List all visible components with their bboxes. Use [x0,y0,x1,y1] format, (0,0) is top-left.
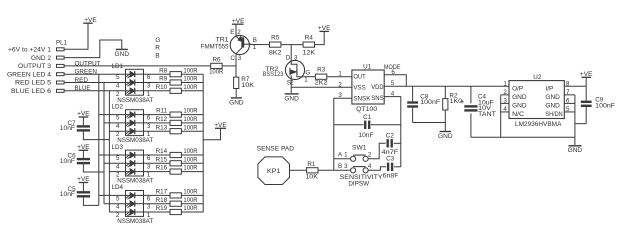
power +VE (U2) [580,71,593,78]
svg-text:4: 4 [116,83,120,90]
svg-text:6n8F: 6n8F [383,172,399,179]
svg-text:10nF: 10nF [358,132,373,139]
wire LD2 pin2 [109,130,125,132]
wire GND rail (U2) [471,136,575,138]
svg-text:SNS: SNS [371,95,383,102]
svg-text:4: 4 [116,204,120,211]
pin 4 (U2) [503,106,507,113]
svg-text:100R: 100R [183,124,198,131]
net OUTPUT wire [64,65,210,67]
wire LD3 pin4 [104,162,126,164]
pin 4 (U1 SNS) [391,91,395,98]
resistor R6 100R [209,57,224,76]
svg-text:100R: 100R [183,165,198,172]
wire SW1-A left [334,158,351,160]
svg-text:100R: 100R [183,67,198,74]
svg-text:R11: R11 [156,108,168,115]
pin 3 (U1 SNSK) [338,92,342,99]
wire SNSK drop [334,98,352,170]
svg-text:BLUE LED 6: BLUE LED 6 [11,88,52,95]
svg-text:4: 4 [368,163,372,170]
LED LD2 NSSM038AT [112,103,154,144]
pin 3 (U2) [503,98,507,105]
pin 1 (U2) [503,81,507,88]
label SENSITIVITY [340,174,384,181]
svg-text:BSS123: BSS123 [263,71,284,78]
net BLUE label [75,85,91,92]
wire R4 to +VE [315,31,325,44]
power +VE (PL1) [83,17,97,24]
svg-text:KP1: KP1 [267,168,281,175]
svg-text:G: G [155,37,160,44]
svg-text:R16: R16 [156,165,168,172]
LED LD4 NSSM038AT [112,184,154,225]
wire VDD rail [384,85,509,87]
sense pad KP1 [258,157,290,185]
net RED label [75,77,89,84]
svg-text:R19: R19 [156,205,168,212]
svg-text:O/P: O/P [512,85,523,92]
svg-text:8K2: 8K2 [269,49,282,56]
pin label D3 (TR2) [286,55,298,62]
ground (TR2) [284,94,299,102]
wire RED bus [103,83,105,204]
capacitor C8 100nF [407,86,440,122]
ground (PL1) [115,49,130,57]
svg-text:R17: R17 [156,189,168,196]
svg-text:3: 3 [147,204,151,211]
svg-text:R: R [155,45,160,52]
svg-text:R1: R1 [307,161,316,168]
resistor R1 10K [305,161,319,181]
svg-text:GND: GND [545,103,560,110]
svg-text:U2: U2 [533,74,542,81]
resistor R9 100R [144,76,204,86]
svg-text:GND: GND [512,103,527,110]
svg-text:VDD: VDD [371,84,384,91]
pin 2 (U2) [503,89,507,96]
svg-text:1: 1 [338,70,342,77]
svg-text:+6V to +24V 1: +6V to +24V 1 [8,47,52,54]
resistor R15 100R [144,156,204,166]
net BLUE wire [64,90,125,92]
svg-text:N/C: N/C [512,111,525,118]
wire SNS drop [384,97,401,167]
label TR1 [216,36,230,43]
pin 5 (U1 VDD) [391,80,395,87]
svg-text:R3: R3 [317,67,326,74]
wire +VE bus stub [203,128,220,140]
svg-text:1: 1 [304,76,308,83]
wire pin2 to GND [64,40,122,58]
label BSS123 [263,71,284,78]
capacitor C6 10nF [60,144,104,172]
resistor R2 1K0 [443,86,463,122]
svg-text:10K: 10K [305,174,319,181]
pin 8 (U2) [566,81,570,88]
pin 2 (U1 VSS) [338,81,342,88]
wire LD4 pin4 [104,203,126,205]
pin 6 (U1 MODE) [384,64,401,76]
op-amp U1 QT100 body [352,63,384,104]
svg-text:R6: R6 [212,57,221,64]
svg-text:GND: GND [229,99,244,106]
label LM2936HVBMA [515,121,562,128]
capacitor C1 10nF [334,114,401,139]
svg-text:10K: 10K [241,82,255,89]
svg-text:R9: R9 [159,76,168,83]
resistor R11 100R [144,108,204,118]
svg-text:100R: 100R [183,189,198,196]
svg-text:6: 6 [147,155,151,162]
capacitor C9 100nF [581,86,615,123]
wire MODE jog [384,75,406,87]
svg-text:R5: R5 [271,35,280,42]
capacitor C7 10nF [60,111,110,140]
svg-text:C1: C1 [363,114,372,121]
pin label S2 (TR2) [287,79,294,86]
svg-text:R14: R14 [156,148,168,155]
svg-text:FMMT555: FMMT555 [201,43,229,50]
wire OUTPUT to collector [222,54,236,77]
ground (R7) [229,98,244,106]
svg-text:U1: U1 [363,63,372,70]
resistor R4 12K [302,35,316,57]
pin 1 (U1 OUT) [338,70,342,77]
resistor R12 100R [144,116,204,126]
svg-text:GND 2: GND 2 [31,55,52,62]
svg-text:1: 1 [344,151,348,158]
label QT100 [356,106,378,113]
svg-text:GND: GND [568,147,583,154]
pin 7 (U2) [566,89,570,96]
svg-text:R15: R15 [156,156,168,163]
svg-text:R8: R8 [159,67,168,74]
svg-text:4: 4 [116,123,120,130]
svg-text:OUT: OUT [353,74,366,81]
svg-text:D: D [286,55,291,62]
svg-text:LD2: LD2 [112,103,124,110]
wire R1 to SW1-B [318,169,351,171]
svg-text:LM2936HVBMA: LM2936HVBMA [515,121,562,128]
svg-text:LD4: LD4 [112,184,124,191]
wire R5 to R4 [281,44,303,46]
svg-text:2: 2 [338,81,342,88]
svg-text:LD3: LD3 [112,144,124,151]
svg-text:QT100: QT100 [356,106,378,113]
svg-text:+: + [460,97,465,106]
svg-text:GREEN LED 4: GREEN LED 4 [7,71,52,78]
svg-text:5: 5 [116,195,120,202]
svg-text:3: 3 [344,163,348,170]
pin label B1 (TR1) [253,37,257,51]
svg-text:SW1: SW1 [352,145,367,152]
net RED wire [64,82,125,84]
resistor R7 10K [234,76,255,89]
svg-text:100R: 100R [183,108,198,115]
svg-text:100R: 100R [183,116,198,123]
net OUTPUT label [75,60,101,67]
svg-text:OUTPUT: OUTPUT [75,60,101,67]
svg-text:E: E [230,29,234,36]
svg-text:R12: R12 [156,116,168,123]
resistor R17 100R [144,189,204,199]
label DIPSW [348,180,369,187]
wire R3 to U1 OUT [327,76,352,78]
wire pin1 to +VE [64,23,88,49]
svg-text:R13: R13 [156,124,168,131]
regulator U2 LM2936HVBMA body [509,74,564,119]
svg-text:B: B [155,52,159,59]
LED LD3 NSSM038AT [112,144,154,185]
capacitor C3 6n8F [383,156,401,180]
resistor R19 100R [144,205,204,214]
svg-text:100R: 100R [183,148,198,155]
svg-text:3: 3 [147,123,151,130]
svg-text:NSSM038AT: NSSM038AT [117,218,153,225]
pin label C3 (TR1) [230,55,241,62]
transistor TR1 FMMT555 [230,24,251,54]
svg-text:B: B [338,163,342,170]
svg-text:GND: GND [512,94,527,101]
svg-text:GND: GND [115,51,130,58]
svg-text:SH/DN: SH/DN [545,111,562,118]
label SENSE PAD [257,146,295,153]
label TR2 [265,66,279,73]
wire LD2 pin4 [104,122,126,124]
svg-text:PL1: PL1 [56,39,67,46]
label FMMT555 [201,43,229,50]
wire SW1-B4 to C3 [368,167,386,171]
wire U2 right GND pins [564,95,575,145]
resistor R3 2K2 [315,67,328,87]
svg-text:5: 5 [116,115,120,122]
svg-text:RED: RED [75,77,89,84]
pin 5 (U2) [566,106,570,113]
svg-text:GND: GND [545,94,560,101]
pin label G1 (TR2) [304,70,310,84]
transistor TR2 BSS123 [285,60,304,79]
LED LD1 NSSM038AT [112,63,154,104]
connector PL1 [7,39,67,95]
resistor R10 100R [144,84,204,93]
svg-text:GREEN: GREEN [75,69,98,76]
wire +VE bus (resistors) [202,74,204,212]
wire TR2 source to GND [290,80,292,94]
wire TR1 base to R5 [249,43,269,45]
node R [155,45,160,52]
svg-text:100R: 100R [183,156,198,163]
wire U2 IP to +VE [564,77,586,86]
pin label E2 (TR1) [230,29,241,36]
svg-text:3: 3 [147,83,151,90]
wire R7 to GND [235,89,237,98]
net GREEN label [75,69,98,76]
wire C8/R2 bottom [413,123,446,131]
svg-text:BLUE: BLUE [75,85,91,92]
pin 6 (U2) [566,98,570,105]
svg-text:1: 1 [503,81,507,88]
wire KP1 to R1 [290,169,307,171]
wire BLUE bus [108,91,110,212]
svg-text:100nF: 100nF [420,99,440,106]
wire C9 bottom [575,123,586,125]
capacitor C5 10nF [60,176,99,205]
svg-text:10nF: 10nF [60,125,75,132]
capacitor C2 4n7F [382,132,401,156]
svg-text:RED LED 5: RED LED 5 [15,80,52,87]
power +VE (TR1) [232,18,245,25]
svg-text:2: 2 [368,151,372,158]
resistor R5 8K2 [269,35,282,57]
svg-text:LD1: LD1 [112,63,124,70]
svg-text:SENSE PAD: SENSE PAD [257,146,295,153]
svg-text:100R: 100R [183,84,198,91]
svg-text:5: 5 [116,155,120,162]
resistor R14 100R [144,148,204,157]
svg-text:4: 4 [116,163,120,170]
svg-text:R18: R18 [156,197,168,204]
svg-text:TANT: TANT [478,111,496,118]
capacitor C4 10uF tant [460,86,496,137]
switch SW1 DIPSW [338,145,372,173]
node B [155,52,159,59]
wire LD4 pin2 [109,211,125,213]
wire TR2 gate to R3 [304,76,316,78]
wire LD4 pin5 [99,194,126,196]
wire LD3 pin5 [99,154,126,156]
wire LD3 pin2 [109,171,125,173]
resistor R18 100R [144,197,204,207]
power +VE (LED bus) [214,122,227,129]
wire drain drop [290,45,292,61]
svg-text:6: 6 [147,74,151,81]
svg-text:OUTPUT 3: OUTPUT 3 [18,63,52,70]
ground (C8/R2) [438,132,453,140]
svg-text:SNSK: SNSK [353,96,371,103]
resistor R16 100R [144,165,204,175]
svg-text:6: 6 [147,195,151,202]
svg-text:VSS: VSS [353,85,365,92]
svg-text:R10: R10 [156,84,168,91]
svg-text:2: 2 [237,29,241,36]
svg-text:10nF: 10nF [60,158,75,165]
svg-text:C: C [230,55,235,62]
svg-text:2K2: 2K2 [315,79,328,86]
svg-text:6: 6 [147,115,151,122]
wire LD2 pin5 [99,114,126,116]
svg-text:DIPSW: DIPSW [348,180,369,187]
wire SW1-A2 to C2 [368,143,386,159]
net GREEN wire [64,73,125,75]
svg-text:R4: R4 [305,35,314,42]
svg-text:3: 3 [238,55,242,62]
resistor R13 100R [144,124,204,134]
ground (U2) [568,146,583,154]
svg-text:3: 3 [147,163,151,170]
node G [155,37,160,44]
svg-text:100R: 100R [183,197,198,204]
svg-text:I/P: I/P [545,85,553,92]
svg-text:C3: C3 [386,156,395,163]
svg-text:5: 5 [116,74,120,81]
svg-text:100nF: 100nF [595,103,615,110]
power +VE (R4) [318,25,331,32]
svg-text:TR1: TR1 [216,36,230,43]
svg-text:GND: GND [438,133,453,140]
wire U2 left GND pins [501,95,509,137]
wire VSS (TR2 to U1) [291,86,352,88]
wire GREEN bus [98,74,100,205]
svg-text:3: 3 [294,55,298,62]
svg-text:100R: 100R [183,76,198,83]
svg-text:100R: 100R [183,205,198,212]
svg-text:GND: GND [284,95,299,102]
svg-text:100R: 100R [209,69,224,76]
svg-text:C2: C2 [386,132,395,139]
svg-text:10nF: 10nF [60,191,75,198]
resistor R8 100R [144,67,204,76]
svg-text:12K: 12K [302,49,316,56]
